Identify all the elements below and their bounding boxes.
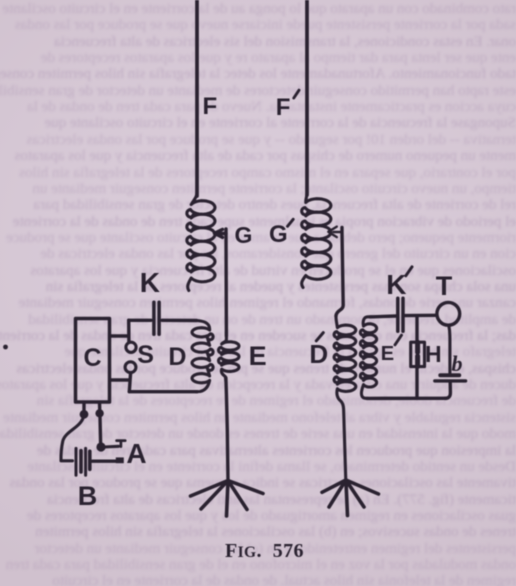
coil E' bbox=[360, 317, 376, 399]
wire C to gap bottom bbox=[110, 378, 129, 381]
tap wire to D' bbox=[336, 228, 343, 317]
capacitor K' bbox=[398, 298, 403, 331]
detector wire top bbox=[415, 316, 418, 342]
label K bbox=[140, 269, 160, 297]
secondary bottom edge bbox=[367, 397, 446, 401]
wire C to gap top bbox=[110, 334, 129, 337]
label B bbox=[78, 483, 98, 510]
primary bottom edge bbox=[129, 390, 197, 393]
terminal dot left bbox=[80, 410, 89, 419]
label K bbox=[386, 271, 406, 299]
label G bbox=[235, 224, 253, 247]
label H bbox=[425, 343, 442, 366]
tap wire down to E bbox=[224, 229, 228, 336]
key lever bbox=[104, 445, 119, 449]
induction coil C bbox=[76, 319, 110, 403]
tap arrow on G bbox=[215, 229, 227, 237]
prime of G' bbox=[288, 219, 294, 226]
detector H box bbox=[411, 342, 425, 366]
battery B inner plates bbox=[81, 451, 90, 472]
wire battery to contact bbox=[93, 460, 117, 463]
prime of F' bbox=[294, 90, 299, 98]
label G bbox=[269, 223, 288, 247]
coil G bbox=[187, 192, 215, 291]
coil G' bbox=[302, 191, 331, 288]
prime of D' bbox=[316, 333, 323, 341]
label E bbox=[381, 344, 394, 364]
spark ball 2 bbox=[125, 362, 136, 373]
label C bbox=[84, 346, 102, 371]
terminal dot right bbox=[95, 409, 103, 417]
key contact block bbox=[116, 457, 124, 463]
label E bbox=[249, 343, 267, 370]
spark branch wires bbox=[129, 320, 131, 391]
label F bbox=[203, 95, 218, 119]
wire b to bottom edge bbox=[445, 383, 450, 399]
detector electrode top bbox=[415, 342, 420, 352]
battery B outer plates bbox=[76, 448, 86, 475]
battery stub left bbox=[82, 402, 85, 410]
label T bbox=[436, 273, 453, 300]
detector electrode bottom bbox=[415, 356, 420, 366]
label D bbox=[309, 341, 328, 367]
coil D' bbox=[334, 315, 356, 481]
label S bbox=[137, 343, 154, 368]
coil D bbox=[192, 321, 213, 392]
wire T to battery b bbox=[449, 325, 450, 373]
detector wire bottom bbox=[415, 367, 418, 399]
label F bbox=[276, 96, 291, 120]
label D bbox=[168, 345, 186, 370]
key screw bbox=[117, 441, 126, 447]
wire E to ground bbox=[226, 378, 228, 481]
label b bbox=[452, 353, 463, 375]
battery b long plate bbox=[435, 379, 466, 382]
coil E bbox=[219, 332, 240, 382]
tap arrow on G' bbox=[328, 227, 342, 238]
capacitor K bbox=[154, 302, 159, 334]
antenna F bbox=[195, 0, 199, 196]
label A bbox=[126, 440, 146, 468]
secondary top edge bbox=[370, 315, 436, 317]
prime of E' bbox=[395, 335, 402, 345]
wire dot to battery bbox=[61, 417, 84, 461]
caption Fig. 576 bbox=[225, 541, 304, 561]
key pivot dot bbox=[96, 442, 105, 451]
spark ball 1 bbox=[126, 342, 136, 352]
key wire down bbox=[98, 417, 102, 443]
telephone T bbox=[437, 302, 460, 325]
primary top edge bbox=[129, 319, 197, 323]
prime of K' bbox=[406, 267, 412, 276]
ink speck bbox=[3, 345, 8, 350]
ground left bbox=[191, 481, 264, 517]
battery stub right bbox=[98, 402, 102, 409]
ground right bbox=[322, 480, 379, 516]
antenna F' bbox=[305, 0, 309, 195]
battery b short plate bbox=[440, 373, 459, 377]
